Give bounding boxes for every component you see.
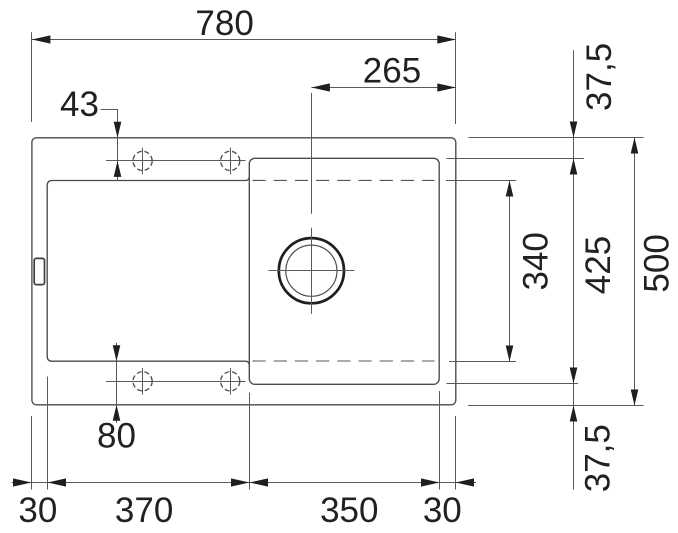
svg-text:80: 80 [97,417,136,456]
hole centerline top row [106,160,246,162]
svg-text:340: 340 [517,232,556,290]
svg-text:30: 30 [18,491,57,530]
bowl waterline dashed top [253,179,435,181]
right ext line waterline top [446,180,516,182]
dim 780 line [32,39,456,41]
mounting hole top-right [221,151,240,170]
dim 425 arrow up [570,159,578,175]
dim 37.5 top arrow down [570,122,578,138]
overflow cutout [34,258,44,284]
right ext line sink bottom [468,405,644,407]
dim 43 arrow up [114,161,122,177]
dim 350 arrow left [250,478,269,486]
drain crosshair horizontal [268,270,354,272]
dim 425 arrow down [570,368,578,384]
right bowl outline [249,158,439,384]
dim 80 arrow down [113,345,121,361]
bottom ext line sink right [455,416,457,490]
dim 37.5 bottom arrow up [570,406,578,422]
dim 37.5 top / 425 / 37.5 bottom shared line [573,50,575,489]
dim 340 line [509,181,511,362]
bowl waterline dashed bottom [253,360,435,362]
dim 500 line [634,138,636,406]
drain crosshair vertical [311,228,313,314]
svg-text:37,5: 37,5 [580,43,619,111]
dim 350 arrow right [421,478,440,486]
svg-text:425: 425 [579,236,618,294]
dim 30 left arrow (outside, pointing right) [13,478,32,486]
dim 80 line [116,343,118,423]
drain outer circle [279,238,344,303]
svg-text:350: 350 [320,491,378,530]
dim 265 line [311,87,455,89]
dim 500 arrow up [631,138,639,154]
dim 780 extension left [31,32,33,122]
mounting hole bottom-left [133,372,152,391]
dim 780 arrow left [32,35,51,43]
hole centerline bottom row [106,381,246,383]
dim 370 arrow right [231,478,250,486]
svg-text:30: 30 [423,491,462,530]
dim 780 arrow right [437,35,456,43]
dim 265 arrow left [311,83,330,91]
drain centerline from 265 dim [311,93,313,214]
dim 265 arrow right [437,83,456,91]
svg-text:265: 265 [363,52,421,91]
right ext line bowl top [447,158,585,160]
dim 43 leader [101,110,118,181]
right ext line bowl bottom [447,383,579,385]
bottom ext line divider [249,393,251,490]
dim 30 right arrow (outside, pointing left) [456,478,475,486]
bottom ext line sink left [31,416,33,490]
bottom ext line drainboard left [47,377,49,490]
right ext line sink top [469,137,644,139]
svg-text:780: 780 [195,4,253,43]
svg-text:37,5: 37,5 [579,424,618,492]
dim 80 arrow up [113,405,121,421]
drainboard inner contour [47,177,249,366]
dim 340 arrow up [506,181,514,197]
dim 370 arrow left [48,478,67,486]
svg-text:43: 43 [60,85,99,124]
bottom ext line bowl right [439,391,441,490]
svg-text:370: 370 [115,491,173,530]
dim 780 extension right [455,32,457,124]
svg-text:500: 500 [637,234,676,292]
drain inner circle [286,245,337,296]
sink outer outline [32,138,456,405]
mounting hole top-left [133,151,152,170]
bottom dim line [12,482,477,484]
mounting hole bottom-right [221,372,240,391]
dim 500 arrow down [631,390,639,406]
dim 340 arrow down [506,346,514,362]
dim 43 arrow down [114,122,122,138]
right ext line waterline bottom [449,361,516,363]
